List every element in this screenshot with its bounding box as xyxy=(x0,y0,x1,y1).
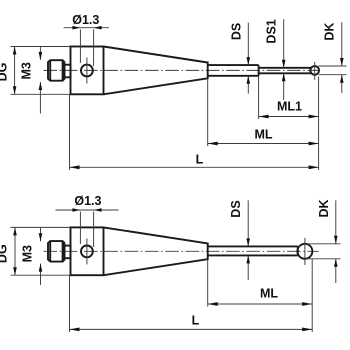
dimension DG xyxy=(0,47,71,95)
dimension Ø1.3 xyxy=(56,194,119,247)
stem DS xyxy=(208,246,298,255)
svg-text:M3: M3 xyxy=(19,62,33,79)
svg-text:ML1: ML1 xyxy=(277,100,302,114)
stem DS1 xyxy=(259,68,312,74)
holder body xyxy=(71,47,104,95)
svg-text:DG: DG xyxy=(0,63,10,82)
taper cone xyxy=(104,47,208,95)
label DS xyxy=(229,200,250,280)
centerline bottom stylus xyxy=(44,250,319,252)
svg-text:Ø1.3: Ø1.3 xyxy=(72,13,99,27)
dimension DG xyxy=(0,227,70,275)
svg-text:ML: ML xyxy=(254,127,272,141)
svg-text:DK: DK xyxy=(323,23,337,41)
label DS1 xyxy=(265,19,286,100)
holder body xyxy=(71,227,104,275)
dimension M3 xyxy=(21,227,43,285)
screw knurl M3 thread xyxy=(48,241,64,262)
svg-text:ML: ML xyxy=(260,287,278,301)
stem DS xyxy=(208,65,259,76)
hole circle xyxy=(81,246,93,258)
ball vertical centerline xyxy=(304,238,306,265)
label DK xyxy=(319,22,347,93)
svg-text:DS: DS xyxy=(229,200,243,217)
dimension M3 xyxy=(19,47,42,114)
hole vertical centerline xyxy=(86,58,88,84)
label DS xyxy=(229,23,250,94)
svg-text:DG: DG xyxy=(0,244,9,263)
dimension ML xyxy=(208,78,319,146)
dimension Ø1.3 xyxy=(64,13,110,66)
ball vertical centerline xyxy=(314,62,316,80)
svg-text:DS: DS xyxy=(229,23,243,40)
centerline top stylus xyxy=(44,69,320,71)
neck xyxy=(64,65,70,78)
svg-text:M3: M3 xyxy=(21,245,35,262)
taper cone xyxy=(104,227,208,275)
svg-text:Ø1.3: Ø1.3 xyxy=(74,194,101,208)
dimension ML1 xyxy=(259,76,319,170)
ball DK xyxy=(297,244,312,259)
svg-text:DS1: DS1 xyxy=(265,19,279,43)
svg-text:L: L xyxy=(196,152,204,166)
dimension L xyxy=(70,275,313,332)
svg-text:DK: DK xyxy=(317,199,331,217)
dimension L xyxy=(70,94,319,170)
dimension ML xyxy=(208,259,313,332)
hole vertical centerline xyxy=(86,238,88,264)
ball DK xyxy=(310,66,319,75)
svg-text:L: L xyxy=(192,314,200,328)
neck xyxy=(64,246,70,259)
label DK xyxy=(306,199,341,283)
hole circle xyxy=(81,65,93,77)
screw knurl M3 thread xyxy=(48,60,64,80)
